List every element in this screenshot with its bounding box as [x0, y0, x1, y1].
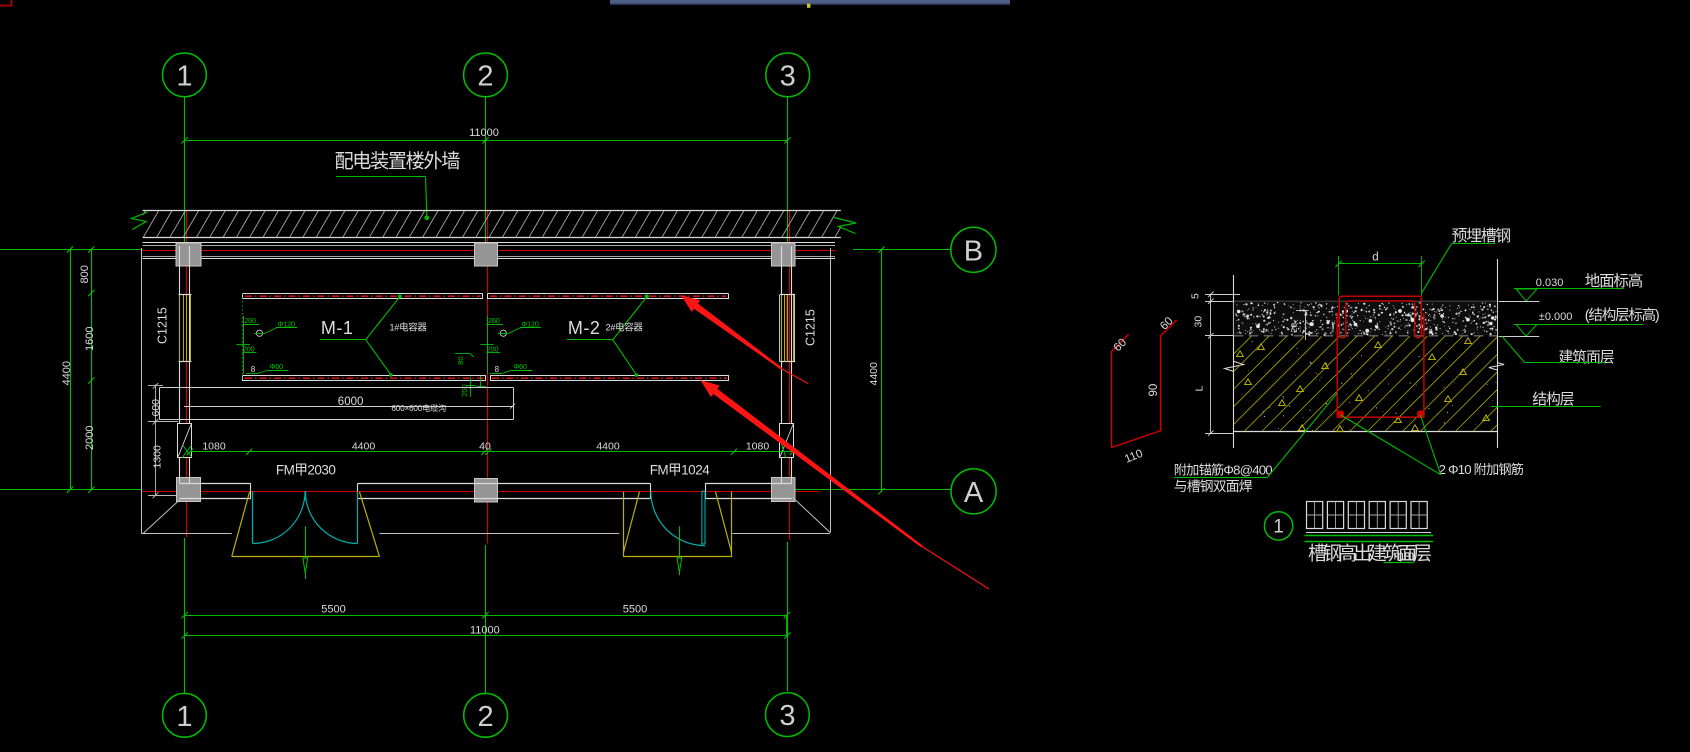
- red axis 2 vertical: [487, 211, 489, 544]
- M-1 leader lines: [320, 339, 366, 341]
- grid circle 3 at bottom: [766, 693, 810, 737]
- svg-text:0.030: 0.030: [1536, 277, 1564, 289]
- svg-text:建筑面层: 建筑面层: [1559, 349, 1614, 366]
- detail number circle 1: [1264, 512, 1292, 540]
- svg-text:1080: 1080: [202, 441, 226, 453]
- svg-text:8: 8: [251, 365, 256, 374]
- red axis B horizontal: [142, 250, 835, 252]
- dim 20 inside topping: [1305, 311, 1307, 341]
- dimension d over channel: [1339, 263, 1422, 265]
- structure layer yellow hatching: [1234, 336, 1497, 431]
- cable trench rectangle: [160, 387, 514, 389]
- door FM2030 frame (yellow): [232, 492, 250, 556]
- svg-text:40: 40: [479, 441, 491, 453]
- bottom dimension line 11000: [185, 635, 788, 637]
- apron outline right vertical: [830, 248, 832, 533]
- svg-text:配电装置楼外墙: 配电装置楼外墙: [335, 151, 461, 173]
- apron corner diagonal left: [143, 500, 180, 534]
- cable trench middle line: [184, 406, 513, 408]
- column C2: [475, 243, 498, 266]
- canopy diagonal hatching: [143, 211, 841, 237]
- equipment row M-2 top: [488, 293, 728, 295]
- svg-text:B: B: [964, 235, 983, 267]
- top wall face lines: [143, 242, 835, 244]
- column C5: [475, 479, 498, 503]
- svg-text:1: 1: [176, 60, 192, 92]
- svg-text:2: 2: [477, 60, 493, 92]
- left wall niche: [178, 424, 192, 458]
- svg-text:FM甲2030: FM甲2030: [276, 463, 336, 478]
- title underline white + double green: [1306, 532, 1431, 534]
- svg-text:4400: 4400: [352, 441, 376, 453]
- green axis A extension left: [0, 489, 142, 491]
- svg-text:5500: 5500: [321, 604, 345, 616]
- svg-text:C1215: C1215: [156, 307, 170, 344]
- svg-text:Φ60: Φ60: [270, 362, 284, 371]
- svg-text:(结构层标高): (结构层标高): [1585, 307, 1659, 324]
- aggregate triangles in structure layer: [1237, 338, 1490, 432]
- detail title: yumai caogang zuofa (pseudo glyph boxes): [1307, 502, 1323, 529]
- grid circle B: [951, 227, 996, 272]
- red review arrow 1 (points at upper equipment row): [681, 295, 783, 370]
- right wall faces: [781, 246, 783, 483]
- anchor bolt dim cluster at x=486.8: [487, 316, 489, 374]
- svg-text:FM甲1024: FM甲1024: [650, 463, 711, 478]
- grid circle 2 at top: [464, 53, 508, 97]
- hatched canopy band outline: [143, 210, 841, 212]
- grid circle 2 at bottom: [464, 693, 508, 737]
- canopy break mark right (green zigzag): [834, 218, 856, 234]
- svg-text:11000: 11000: [469, 127, 499, 139]
- svg-text:1080: 1080: [746, 441, 770, 453]
- anchor bolt dim cluster at x=243: [243, 316, 245, 374]
- svg-text:L: L: [1194, 386, 1206, 392]
- door FM1024 leaf (cyan): [702, 491, 705, 544]
- svg-text:C1215: C1215: [804, 309, 818, 346]
- svg-text:260: 260: [488, 316, 500, 325]
- svg-text:Φ120: Φ120: [521, 319, 538, 328]
- structure layer bottom line: [1234, 431, 1497, 433]
- svg-text:1: 1: [176, 701, 192, 733]
- dotted green construction line at row left ends: [241, 293, 243, 381]
- grid circle 1 at top: [163, 53, 207, 97]
- break zigzag on left boundary: [1225, 361, 1244, 371]
- canopy break mark left (green zigzag): [132, 212, 148, 230]
- dim 600 / 1300 near left wall: [155, 384, 157, 495]
- svg-text:1600: 1600: [84, 327, 96, 351]
- red axis 3 vertical: [789, 211, 791, 540]
- bottom wall segment right: [705, 483, 791, 485]
- channel steel profile sketch (red): [1111, 352, 1113, 448]
- green axis B extension left: [0, 249, 142, 251]
- svg-text:600×600电缆沟: 600×600电缆沟: [391, 403, 446, 413]
- svg-text:1300: 1300: [152, 445, 164, 469]
- svg-text:Φ60: Φ60: [513, 362, 527, 371]
- red selection-rectangle corner top-left: [0, 0, 12, 6]
- svg-text:90: 90: [1148, 384, 1160, 397]
- detail left dimension chain 5/30/L: [1210, 294, 1212, 433]
- column C4: [177, 478, 201, 502]
- svg-text:4400: 4400: [868, 362, 880, 386]
- svg-text:600: 600: [150, 399, 162, 417]
- leader line of wall label: [336, 176, 426, 178]
- yellow cursor dot on title bar: [807, 4, 810, 8]
- svg-text:2000: 2000: [84, 426, 96, 450]
- equipment row M-1 bottom: [243, 375, 486, 377]
- svg-text:预埋槽钢: 预埋槽钢: [1452, 227, 1511, 245]
- break zigzag on right boundary: [1489, 363, 1504, 371]
- apron corner diagonal right: [793, 498, 830, 533]
- grid line 3 green vertical: [787, 97, 789, 243]
- svg-text:结构层: 结构层: [1532, 391, 1574, 408]
- level symbol 0.030 ground level: [1514, 288, 1624, 290]
- svg-text:M-2: M-2: [568, 318, 601, 338]
- detail: section boundary right: [1497, 259, 1499, 448]
- subtitle small underline: [1384, 562, 1414, 564]
- bottom dimension line 5500+5500: [185, 615, 787, 617]
- grid circle 3 at top: [766, 53, 810, 97]
- svg-text:地面标高: 地面标高: [1585, 272, 1643, 290]
- green axis A line to circle A: [787, 489, 951, 491]
- left wall faces: [179, 246, 181, 483]
- svg-text:4400: 4400: [596, 441, 620, 453]
- door FM2030 swing arrow (green): [305, 526, 307, 558]
- column C3: [772, 243, 796, 266]
- window C1215 right: [780, 294, 796, 296]
- anchor outline box below channel (red): [1337, 313, 1424, 417]
- svg-text:Φ120: Φ120: [278, 319, 295, 328]
- bottom wall segment middle: [358, 483, 651, 485]
- svg-text:mm: mm: [1394, 548, 1415, 562]
- column C6: [772, 478, 796, 502]
- extension verticals to bottom circles area: [786, 615, 788, 636]
- svg-text:11000: 11000: [470, 624, 500, 636]
- svg-text:与槽钢双面焊: 与槽钢双面焊: [1174, 479, 1253, 494]
- svg-text:200: 200: [460, 384, 469, 397]
- anchor bar dots (2 phi 10): [1337, 410, 1344, 417]
- column C1: [176, 243, 201, 266]
- embedded channel steel (red): [1339, 296, 1421, 338]
- level symbol +-0.000 structure level: [1514, 324, 1644, 326]
- svg-text:附加锚筋Φ8@400: 附加锚筋Φ8@400: [1174, 461, 1272, 477]
- apron outline left vertical: [141, 248, 143, 534]
- svg-text:2 Φ10 附加钢筋: 2 Φ10 附加钢筋: [1439, 461, 1524, 477]
- bottom wall segment left: [180, 483, 251, 485]
- svg-text:2: 2: [478, 701, 494, 733]
- svg-text:1#电容器: 1#电容器: [389, 322, 427, 334]
- grid circle A: [951, 469, 996, 514]
- svg-text:800: 800: [79, 265, 91, 283]
- grid line 2 green vertical: [485, 97, 487, 243]
- red axis 1 vertical: [186, 211, 188, 537]
- svg-text:80: 80: [456, 356, 465, 364]
- detail: section boundary left: [1233, 275, 1235, 448]
- apron bottom line segments: [142, 533, 232, 535]
- equipment row M-1 top: [243, 293, 483, 295]
- door FM2030 leaves (cyan): [252, 491, 254, 544]
- door FM1024 swing arrow (green): [679, 526, 681, 558]
- green axis B line to circle B: [853, 249, 951, 251]
- window C1215 left: [179, 294, 192, 296]
- svg-text:±0.000: ±0.000: [1539, 311, 1573, 323]
- left dimension chain verticals: [70, 249, 72, 489]
- inner dimension chain above doors: [190, 451, 793, 453]
- right dimension 4400 vertical: [881, 250, 883, 492]
- top dimension line 11000: [185, 140, 788, 142]
- svg-text:30: 30: [1193, 316, 1205, 328]
- svg-text:5: 5: [1189, 293, 1201, 299]
- svg-text:d: d: [1372, 251, 1378, 263]
- red axis A horizontal: [142, 491, 820, 493]
- window title bar fragment top center: [610, 0, 1010, 5]
- concrete topping layer (speckled): [1234, 301, 1497, 303]
- equipment row M-2 bottom: [490, 375, 729, 377]
- right wall niche: [780, 424, 794, 458]
- red review arrow 2 (points at lower equipment row): [701, 380, 923, 547]
- svg-text:3: 3: [779, 700, 795, 732]
- svg-text:M-1: M-1: [321, 318, 354, 338]
- svg-text:8: 8: [495, 365, 500, 374]
- svg-text:4400: 4400: [61, 361, 73, 385]
- M-2 leader lines: [567, 339, 613, 341]
- svg-text:3: 3: [780, 60, 796, 92]
- svg-text:6000: 6000: [338, 396, 364, 408]
- svg-text:1: 1: [1273, 517, 1284, 538]
- svg-text:20: 20: [1289, 323, 1299, 333]
- svg-text:A: A: [964, 477, 984, 509]
- svg-text:260: 260: [244, 316, 256, 325]
- grid line 1 green vertical: [184, 97, 186, 243]
- door FM1024 frame (yellow): [623, 492, 625, 557]
- svg-text:2#电容器: 2#电容器: [605, 322, 643, 334]
- grid circle 1 at bottom: [163, 693, 207, 737]
- svg-text:5500: 5500: [623, 604, 647, 616]
